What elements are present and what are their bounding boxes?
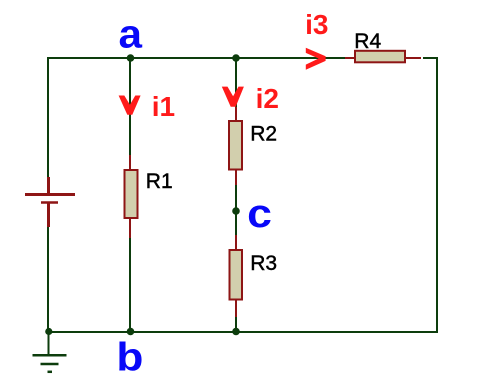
svg-text:R4: R4 [354,30,381,53]
svg-text:R1: R1 [146,170,173,193]
svg-text:c: c [247,192,272,236]
svg-text:a: a [119,12,143,56]
svg-text:i1: i1 [152,91,175,122]
svg-text:R3: R3 [250,252,277,275]
svg-text:R2: R2 [250,123,277,146]
svg-text:i3: i3 [305,9,328,40]
svg-text:b: b [116,336,143,380]
svg-text:i2: i2 [256,83,279,114]
